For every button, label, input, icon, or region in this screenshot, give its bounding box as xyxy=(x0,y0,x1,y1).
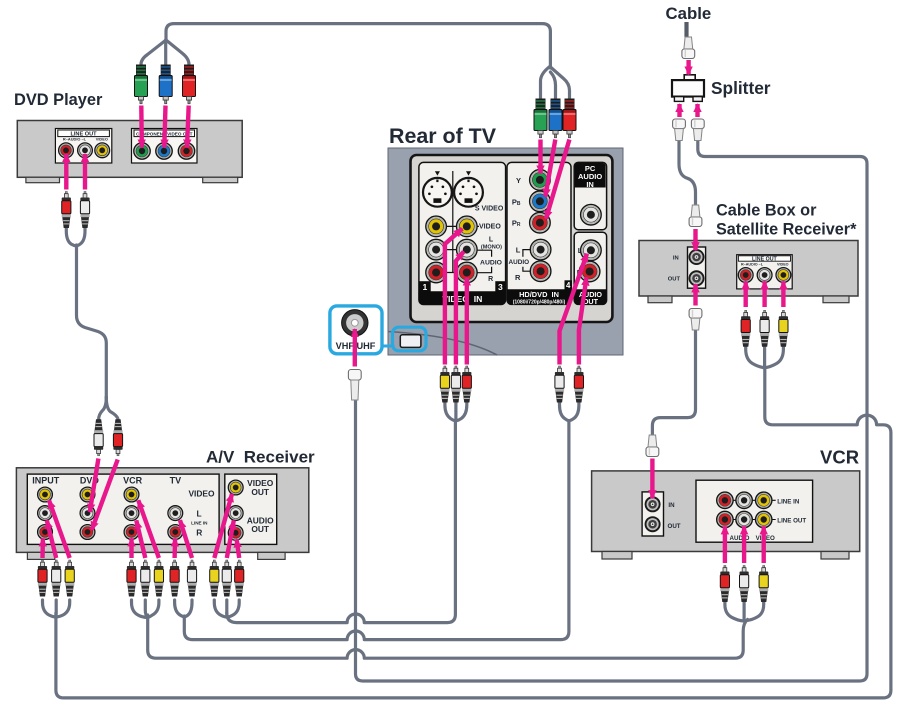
plug: receiver INPUT R plug (red) xyxy=(38,560,47,597)
jack: DVD line out L audio (white) xyxy=(78,143,93,158)
svg-text:INPUT: INPUT xyxy=(32,476,60,486)
coax plug: into cable box IN (down) xyxy=(689,205,702,227)
jack: receiver DVD R audio (red) xyxy=(80,525,95,540)
svg-text:AUDIO: AUDIO xyxy=(509,259,530,266)
svg-text:R–AUDIO –L: R–AUDIO –L xyxy=(63,137,87,142)
arrow: TV audio out L jack to white plug xyxy=(560,254,588,365)
plug: receiver INPUT video plug (yellow) xyxy=(65,560,74,597)
receiver input panel xyxy=(27,474,219,544)
arrow: DVD line out L jack to white plug xyxy=(83,154,87,190)
plug: receiver VCR video plug (yellow) xyxy=(154,560,163,597)
blue callout box: side AV button xyxy=(393,327,427,351)
arrow: cable box OUT to coax plug xyxy=(693,284,697,305)
svg-text:LINE OUT: LINE OUT xyxy=(777,518,806,525)
svg-text:R–AUDIO –L: R–AUDIO –L xyxy=(741,263,764,267)
jack: TV audio out L (white) xyxy=(581,240,602,261)
jack: TV audio in 1 R (red) xyxy=(426,262,447,283)
jack: receiver INPUT R audio (red) xyxy=(38,525,53,540)
arrow: yellow plug into receiver VCR video jack xyxy=(138,500,159,558)
arrow: VCR line out L jack to plug xyxy=(742,526,746,563)
splitter body xyxy=(672,75,704,102)
arrow: VCR line out R jack to plug xyxy=(723,526,727,563)
jack: cable box line out R audio (red) xyxy=(738,268,753,283)
svg-text:VIDEO: VIDEO xyxy=(188,488,215,498)
A/V Receiver chassis xyxy=(16,468,308,560)
arrow: component Y plug into DVD Y jack xyxy=(139,106,144,148)
jack: receiver VCR video (yellow) xyxy=(124,487,139,502)
jack: VCR line out L audio (white) xyxy=(736,511,752,527)
svg-text:S VIDEO: S VIDEO xyxy=(475,206,504,213)
svg-text:A/V Receiver: A/V Receiver xyxy=(206,448,315,467)
svg-text:LINE IN: LINE IN xyxy=(777,498,800,505)
jack: DVD component Pr out (red) xyxy=(178,143,194,159)
jack: TV HD/DVD Y in (green) xyxy=(530,170,551,191)
panel grouping lines (VIDEO IN section) xyxy=(436,171,492,273)
jack: TV HD/DVD Pr in (red) xyxy=(530,212,551,233)
jack: receiver AUDIO OUT R (red) xyxy=(228,525,243,540)
plug: component plug Y at TV (green) xyxy=(534,99,547,138)
wire: receiver output to TV video in (bottom run y=622.6) xyxy=(214,402,466,623)
plug: TV video in R plug (red) xyxy=(462,366,471,403)
plug: DVD line out R plug (red) xyxy=(62,192,71,229)
jack: VCR line in R audio (red) xyxy=(717,492,733,508)
arrow: coax plug into VCR IN xyxy=(650,459,654,499)
DVD COMPONENT VIDEO OUT panel xyxy=(132,129,198,164)
svg-text:OUT: OUT xyxy=(251,487,270,497)
plug: receiver AUDIO OUT R plug (red) xyxy=(235,560,244,597)
label: Cable Box or Satellite Receiver* xyxy=(716,202,857,239)
plug: TV video in L plug (white) xyxy=(451,366,460,403)
svg-text:TV: TV xyxy=(170,476,182,486)
receiver output panel xyxy=(225,474,277,544)
svg-text:VIDEO: VIDEO xyxy=(777,263,789,267)
wire: splitter output 1 to cable box IN xyxy=(679,141,696,206)
S-Video input 1 connector xyxy=(423,171,452,206)
wire: splitter output 2 to TV VHF/UHF antenna input xyxy=(356,141,868,682)
arrow: component Y plug into TV Y jack xyxy=(538,140,542,174)
svg-text:OUT: OUT xyxy=(668,523,681,530)
DVD Player chassis xyxy=(17,121,242,183)
jack: TV VHF/UHF antenna input xyxy=(342,310,368,336)
jack: TV audio in 3 L mono (white) xyxy=(457,239,478,260)
TV connector panel xyxy=(411,155,613,322)
arrow: DVD line out R jack to red plug xyxy=(64,154,68,190)
svg-text:(1080i/720p/480p/480i): (1080i/720p/480p/480i) xyxy=(513,300,566,306)
cable box LINE OUT panel xyxy=(737,255,793,289)
arrow: red plug into TV R audio jack xyxy=(465,278,469,365)
plug: DVD line out L plug (white) xyxy=(80,192,89,229)
svg-text:Cable Box or: Cable Box or xyxy=(716,202,817,220)
labels: HD/DVD IN section xyxy=(509,176,530,282)
svg-text:DVD Player: DVD Player xyxy=(14,91,103,109)
arrow: white plug into TV L mono jack xyxy=(456,252,464,365)
jack: receiver DVD L audio (white) xyxy=(80,506,95,521)
arrow: white plug into receiver AUDIO OUT L jack xyxy=(227,520,234,558)
jack: VCR line out video (yellow) xyxy=(756,511,772,527)
wire: VCR line out to receiver VCR input (run y=658.2) xyxy=(132,600,764,658)
plug: component plug Pb at TV (blue) xyxy=(549,99,562,138)
arrow: cable box line out video jack to plug xyxy=(781,281,785,307)
TV side AV cover button xyxy=(400,335,421,348)
coax plug: TV VHF/UHF (up) xyxy=(348,370,361,401)
TV PC AUDIO IN section xyxy=(574,162,606,229)
plug: VCR line out L plug (white) xyxy=(740,566,749,603)
plug: receiver VCR R plug (red) xyxy=(127,560,136,597)
jack: DVD line out R audio (red) xyxy=(59,143,74,158)
arrow: yellow plug into receiver INPUT video jack xyxy=(49,500,70,558)
jack: receiver AUDIO OUT L (white) xyxy=(228,506,243,521)
arrow: component Pr plug into DVD Pr jack xyxy=(187,106,189,148)
Cable Box chassis xyxy=(639,241,858,303)
plug: TV audio out L plug (white) xyxy=(555,366,564,403)
plug: TV video in video plug (yellow) xyxy=(440,366,449,403)
svg-text:1: 1 xyxy=(423,282,428,292)
arrow: coax plug into cable box IN xyxy=(693,229,697,250)
jack: DVD component Pb out (blue) xyxy=(156,143,172,159)
arrow: VCR line out video jack to plug xyxy=(762,526,766,563)
arrow: white plug into receiver VCR L jack xyxy=(136,520,145,558)
jack: TV PC audio in (white) xyxy=(581,204,602,225)
arrow: TV audio out R jack to red plug xyxy=(579,277,587,364)
svg-text:AUDIO: AUDIO xyxy=(730,535,750,542)
arrow: component Pr plug into TV Pr jack xyxy=(546,140,569,219)
plug: VCR line out video plug (yellow) xyxy=(759,566,768,603)
svg-text:VIDEO IN: VIDEO IN xyxy=(442,294,482,304)
plug: receiver AUDIO OUT L plug (white) xyxy=(222,560,231,597)
TV VIDEO IN section xyxy=(419,162,506,304)
svg-text:R: R xyxy=(196,527,202,537)
jack: TV video in 3 (yellow) xyxy=(457,216,478,237)
jack: TV audio in 1 L mono (white) xyxy=(426,239,447,260)
TV AUDIO OUT section xyxy=(574,232,606,306)
plug: TV audio out R plug (red) xyxy=(574,366,583,403)
jack: TV audio out R (red) xyxy=(579,261,600,282)
plug: component plug Pr at DVD (red) xyxy=(183,65,196,104)
jack: TV audio in 3 R (red) xyxy=(457,262,478,283)
svg-text:HD/DVD IN: HD/DVD IN xyxy=(519,290,559,299)
jack: VCR line out R audio (red) xyxy=(717,511,733,527)
svg-text:LINE OUT: LINE OUT xyxy=(752,257,777,263)
wire: antenna cable stub above Cable plug xyxy=(684,22,688,37)
arrow: cable box line out R jack to plug xyxy=(744,281,748,307)
plug: receiver INPUT L plug (white) xyxy=(52,560,61,597)
coax plug: out of cable box OUT (up) xyxy=(689,309,702,331)
VCR RF IN/OUT plate xyxy=(642,492,681,536)
plug: DVD audio L into receiver (white, down) xyxy=(94,419,103,456)
svg-text:R: R xyxy=(488,276,493,283)
S-Video input 3 connector xyxy=(454,171,483,206)
svg-text:OUT: OUT xyxy=(668,277,681,283)
svg-text:OUT: OUT xyxy=(251,524,270,534)
cable box RF IN/OUT plate xyxy=(668,247,706,288)
arrow: white plug into receiver INPUT L jack xyxy=(47,520,56,558)
arrow: red plug into receiver VCR R jack xyxy=(129,538,133,558)
arrow: yellow plug into receiver VIDEO OUT jack xyxy=(214,494,232,558)
jack: cable box line out L audio (white) xyxy=(757,268,772,283)
arrow: DVD red plug into receiver DVD R jack xyxy=(92,460,118,530)
plug: component plug Pb at DVD (blue) xyxy=(159,65,172,104)
jack: DVD component Y out (green) xyxy=(134,143,150,159)
svg-text:VIDEO: VIDEO xyxy=(479,224,501,231)
svg-text:Splitter: Splitter xyxy=(711,78,771,98)
wire: TV audio out to receiver TV input (run y=639.6) xyxy=(175,402,579,640)
jack: receiver VCR R audio (red) xyxy=(124,525,139,540)
svg-text:IN: IN xyxy=(668,502,675,509)
svg-text:IN: IN xyxy=(673,255,679,261)
jack: VCR RF IN xyxy=(645,496,661,512)
plug: component plug Pr at TV (red) xyxy=(563,99,576,138)
arrow: splitter output 1 plug xyxy=(677,104,681,117)
jack: receiver INPUT L audio (white) xyxy=(38,506,53,521)
plug: receiver VIDEO OUT plug (yellow) xyxy=(210,560,219,597)
plug: cable box line out R plug (red) xyxy=(741,310,750,347)
arrow: antenna plug into TV VHF/UHF jack xyxy=(353,329,357,367)
plug: DVD audio R into receiver (red, down) xyxy=(113,419,122,456)
coax plug: into VCR IN (down) xyxy=(646,435,659,457)
DVD LINE OUT panel xyxy=(55,129,111,164)
wire: DVD line out cable to receiver DVD input xyxy=(66,227,118,420)
svg-text:IN: IN xyxy=(586,180,594,189)
coax plug: splitter output 1 (up) xyxy=(673,119,686,141)
svg-text:L: L xyxy=(516,246,521,255)
svg-text:L: L xyxy=(196,508,201,518)
TV cabinet body xyxy=(388,148,623,355)
arrow: red plug into receiver INPUT R jack xyxy=(40,538,45,558)
jack: VCR RF OUT xyxy=(645,516,661,532)
plug: receiver TV L plug (white) xyxy=(187,560,196,597)
wire: cable box OUT to VCR IN xyxy=(652,331,695,437)
labels: VIDEO IN section xyxy=(475,206,504,283)
jack: cable box RF IN xyxy=(689,249,705,265)
svg-text:Rear of TV: Rear of TV xyxy=(389,124,497,148)
svg-text:(MONO): (MONO) xyxy=(481,245,502,251)
arrow: red plug into receiver TV R jack xyxy=(172,538,177,558)
jack: VCR line in video (yellow) xyxy=(756,492,772,508)
jack: receiver TV L audio (white) xyxy=(168,506,183,521)
arrow: splitter output 2 plug xyxy=(695,104,699,117)
svg-text:R: R xyxy=(515,273,521,282)
svg-text:Cable: Cable xyxy=(666,4,712,23)
coax plug: cable end (down) xyxy=(682,37,695,59)
arrow: white plug into receiver TV L jack xyxy=(180,520,192,558)
svg-text:4: 4 xyxy=(566,281,571,290)
svg-text:LINE IN: LINE IN xyxy=(191,520,208,525)
svg-text:VCR: VCR xyxy=(123,476,143,486)
arrow: yellow plug into TV video in jack xyxy=(445,229,462,365)
jack: DVD line out video (yellow) xyxy=(95,143,110,158)
arrow: cable box line out L jack to plug xyxy=(762,281,766,307)
svg-text:L: L xyxy=(489,237,494,244)
arrow: DVD white plug into receiver DVD L jack xyxy=(90,459,99,513)
arrow: component Pb plug into TV Pb jack xyxy=(545,140,555,197)
svg-text:Satellite Receiver*: Satellite Receiver* xyxy=(716,221,857,239)
arrow: cable into splitter input xyxy=(686,60,690,75)
plug: component plug Y at DVD (green) xyxy=(135,65,148,104)
plug: receiver VCR L plug (white) xyxy=(141,560,150,597)
jack: TV HD/DVD Pb in (blue) xyxy=(530,191,551,212)
VCR chassis xyxy=(592,471,860,559)
jack: receiver INPUT video (yellow) xyxy=(38,487,53,502)
jack: TV HD/DVD audio L in (white) xyxy=(530,239,551,260)
jack: cable box line out video (yellow) xyxy=(776,268,791,283)
svg-text:VIDEO: VIDEO xyxy=(96,137,108,142)
jack: receiver VIDEO OUT (yellow) xyxy=(228,480,243,495)
TV HD/DVD IN section xyxy=(507,162,572,305)
coax plug: splitter output 2 (up) xyxy=(691,119,704,141)
wire: component video cable DVD to TV xyxy=(141,24,570,99)
blue callout box: VHF/UHF jack xyxy=(330,306,395,354)
VCR line in/out panel xyxy=(696,480,813,542)
plug: cable box line out video plug (yellow) xyxy=(779,310,788,347)
jack: receiver TV R audio (red) xyxy=(168,525,183,540)
arrow: red plug into receiver AUDIO OUT R jack xyxy=(237,539,240,558)
jack: VCR line in L audio (white) xyxy=(736,492,752,508)
plug: cable box line out L plug (white) xyxy=(760,310,769,347)
jack: TV HD/DVD audio R in (red) xyxy=(530,261,551,282)
svg-text:VCR: VCR xyxy=(820,447,859,468)
plug: VCR line out R plug (red) xyxy=(720,566,729,603)
svg-text:AUDIO: AUDIO xyxy=(480,259,502,266)
jack: TV video in 1 (yellow) xyxy=(426,216,447,237)
jack: cable box RF OUT xyxy=(689,270,705,286)
svg-text:3: 3 xyxy=(498,282,503,292)
svg-text:Y: Y xyxy=(516,176,521,185)
jack: receiver DVD video (yellow) xyxy=(80,487,95,502)
arrow: component Pb plug into DVD Pb jack xyxy=(164,106,165,148)
plug: receiver TV R plug (red) xyxy=(170,560,179,597)
wire: cable box line out to receiver INPUT (bottom run y=697.9) xyxy=(43,346,891,698)
jack: receiver VCR L audio (white) xyxy=(124,506,139,521)
